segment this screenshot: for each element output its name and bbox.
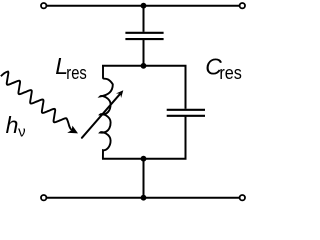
capacitor C_res plates [167,110,205,116]
junction dot top rail [141,3,147,9]
svg-text:ν: ν [18,123,26,140]
wire bottom center lead [143,159,145,198]
terminal top-left [41,3,46,8]
wire bottom rail [47,197,240,199]
junction dot tank top [141,63,147,69]
svg-text:h: h [6,112,19,138]
photon wavy arrow [1,72,72,131]
capacitor (series coupling, top) [125,33,163,39]
wire tank top [102,65,187,67]
wire tank right lower [185,117,187,159]
inductor L_res coil [100,66,113,159]
junction dot bottom rail [141,195,147,201]
svg-text:res: res [66,62,87,83]
terminal top-right [240,3,245,8]
wire tank right upper [185,66,187,109]
junction dot tank bottom [141,156,147,162]
svg-text:res: res [219,62,242,83]
inductor arrow (variable) [82,94,120,137]
terminal bottom-left [41,195,46,200]
wire top cap upper lead [143,6,145,32]
wire top cap lower lead [143,40,145,66]
wire top rail [47,5,240,7]
terminal bottom-right [240,195,245,200]
wire tank bottom [102,158,187,160]
